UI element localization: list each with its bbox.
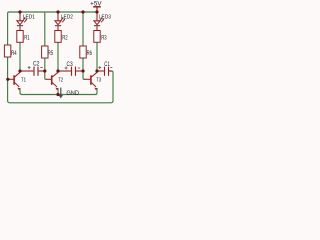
svg-text:R3: R3 — [101, 35, 107, 41]
svg-text:C3: C3 — [67, 62, 74, 68]
svg-text:GND: GND — [66, 90, 79, 97]
svg-text:T2: T2 — [58, 77, 63, 83]
svg-text:+5V: +5V — [90, 0, 102, 7]
svg-text:R5: R5 — [48, 51, 54, 57]
svg-text:LED3: LED3 — [99, 14, 111, 20]
svg-text:LED1: LED1 — [23, 14, 35, 20]
svg-text:T3: T3 — [96, 77, 101, 83]
svg-text:R4: R4 — [11, 51, 17, 57]
svg-text:R1: R1 — [24, 35, 30, 41]
svg-text:R2: R2 — [62, 35, 68, 41]
svg-text:R6: R6 — [87, 51, 93, 57]
svg-text:LED2: LED2 — [61, 14, 73, 20]
svg-text:C1: C1 — [104, 62, 110, 68]
svg-text:T1: T1 — [21, 77, 26, 83]
svg-text:C2: C2 — [33, 61, 40, 67]
